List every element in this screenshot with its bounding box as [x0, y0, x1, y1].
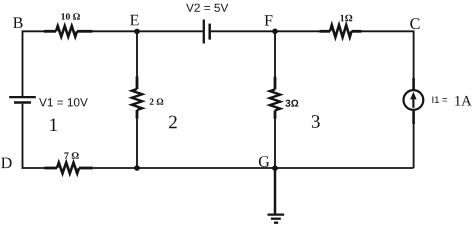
value label 3 ohm: [285, 100, 298, 107]
wire branch F vertical top: [274, 31, 276, 77]
resistor 2 ohm (E branch): [132, 77, 142, 119]
resistor 7 ohm (bottom, D side): [44, 163, 93, 174]
value label V1 = 10V: [39, 98, 88, 106]
wire top rail 10-ohm to V2: [93, 30, 203, 32]
value label I1 = 1A: [432, 97, 447, 104]
node label C: [410, 18, 419, 29]
resistor 3 ohm (F branch): [270, 77, 280, 119]
mesh label 1: [50, 119, 57, 132]
current source I1: [404, 90, 424, 110]
ground symbol: [268, 168, 285, 223]
wire bottom rail 7-ohm to right corner: [93, 167, 414, 169]
wire top rail 1-ohm to C corner: [362, 31, 414, 78]
wire branch E vertical top: [136, 31, 138, 77]
node dot G: [272, 165, 278, 171]
wire right rail stub below current source to bottom corner: [412, 111, 415, 124]
mesh label 3: [312, 115, 320, 128]
wire top rail B to 10-ohm resistor: [23, 31, 46, 96]
value label 1 ohm: [341, 15, 353, 22]
voltage source V2 (battery): [204, 20, 210, 44]
node label D: [1, 158, 11, 169]
node dot F: [272, 29, 278, 35]
wire right rail stub above current source: [412, 78, 415, 89]
mesh label 2: [169, 116, 177, 129]
value label 10 ohm: [61, 13, 80, 20]
wire branch F vertical bottom: [274, 119, 276, 168]
voltage source V1 (battery, left rail): [9, 97, 36, 102]
wire right rail lower segment: [413, 124, 415, 168]
wire branch E vertical bottom: [136, 119, 138, 169]
node label E: [130, 15, 139, 25]
value label V2 = 5V: [186, 4, 228, 12]
node label B: [13, 17, 23, 28]
node dot E: [134, 29, 140, 35]
value label 2 ohm: [150, 99, 164, 105]
node label G: [259, 156, 269, 167]
node label F: [265, 15, 273, 26]
node dot E-bottom junction: [134, 165, 140, 171]
wire top rail V2 to F: [211, 30, 320, 32]
wire left rail V1 to D corner: [23, 104, 46, 168]
resistor 1 ohm (F-C): [320, 25, 362, 37]
value label 7 ohm: [65, 152, 79, 159]
resistor 10 ohm (B-E): [44, 26, 93, 37]
